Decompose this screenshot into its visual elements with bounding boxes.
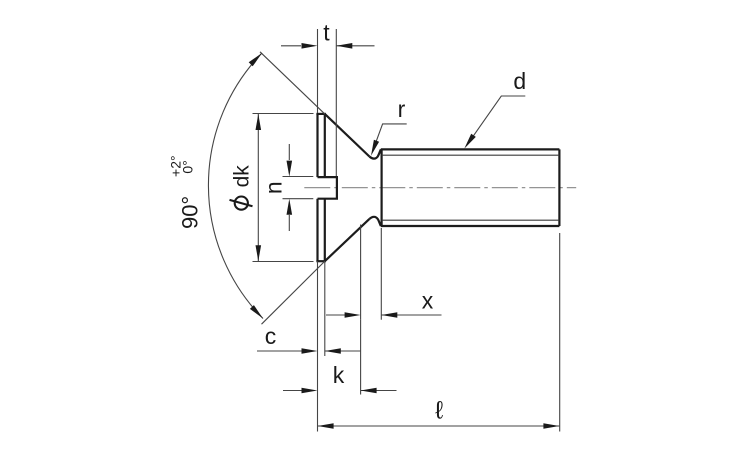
head top edge (316, 113, 326, 115)
svg-text:dk: dk (230, 165, 253, 188)
thread start line (381, 149, 383, 226)
cone edge top (325, 114, 370, 157)
fillet r top (369, 149, 381, 158)
diameter symbol of phi dk (235, 197, 248, 210)
svg-text:90°: 90° (178, 196, 203, 229)
dimension n (283, 144, 314, 231)
svg-text:ℓ: ℓ (435, 397, 444, 425)
slot (n x t) (318, 177, 337, 199)
svg-text:n: n (261, 181, 287, 194)
dimension phi dk (253, 114, 314, 262)
svg-text:r: r (398, 96, 406, 122)
90 degree angle rays (260, 52, 325, 324)
dimension x (326, 225, 442, 320)
shank end (558, 149, 560, 226)
svg-text:t: t (323, 20, 330, 46)
svg-text:0°: 0° (180, 160, 196, 173)
svg-text:k: k (333, 362, 345, 388)
head face outer line (316, 114, 318, 261)
svg-text:d: d (513, 68, 526, 94)
leader d (467, 96, 525, 145)
svg-text:c: c (265, 323, 277, 349)
head bottom edge (316, 260, 326, 262)
cone edge bottom (325, 219, 370, 261)
screw head outline (316, 114, 381, 261)
90 degree dimension arc (208, 53, 263, 319)
head face inner line (c margin) (324, 114, 326, 261)
dimension k (283, 320, 397, 395)
thread minor diameter lines (382, 155, 560, 220)
dimension t (281, 29, 375, 176)
dimension l (length) (318, 233, 560, 432)
shank (thread major diameter) (381, 149, 560, 226)
centerline (screw axis) (304, 187, 576, 189)
leader r (373, 124, 407, 152)
dimension c (257, 261, 361, 356)
fillet r bottom (369, 217, 381, 226)
svg-text:x: x (422, 288, 434, 314)
